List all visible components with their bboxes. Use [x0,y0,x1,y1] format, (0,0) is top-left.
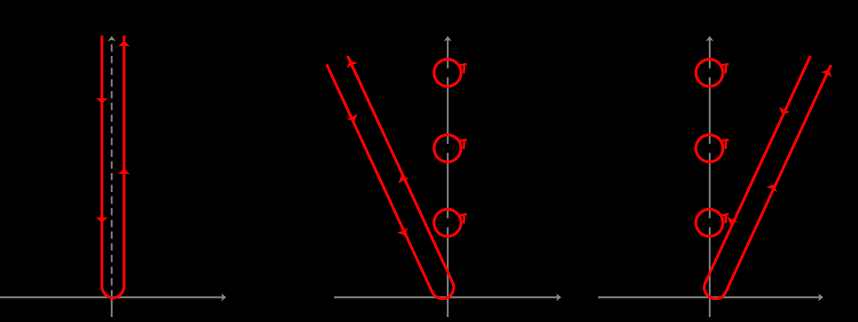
circulation arrow on circle 3 panel 3 [721,214,729,223]
x-axis panel 3 [598,296,820,298]
pole circle 3 panel 3 [696,209,723,236]
arrow down on left branch (lower) [96,217,108,223]
arrow up at outer branch top end panel 3 [821,69,832,77]
contour C3 hairpin [704,56,831,299]
pole circle 2 panel 3 [696,135,723,162]
arrow down on outer branch (upper) panel 2 [347,114,358,122]
y-axis dashed panel 1 [111,38,113,297]
pole circle 1 panel 2 [434,59,461,86]
pole circle 3 panel 2 [434,209,461,236]
circulation arrow on circle 1 panel 3 [721,64,729,73]
arrow down on outer branch (lower) panel 2 [397,228,408,236]
arrow up on inner branch panel 2 [398,176,409,184]
circulation arrow on circle 2 panel 3 [721,140,729,149]
arrow down on left branch (upper) [96,98,108,104]
circulation arrow on circle 2 panel 2 [459,140,467,149]
y-axis solid below origin panel 1 [111,297,113,317]
y-axis panel 3 (segments with gaps at poles) [709,227,711,317]
circulation arrow on circle 1 panel 2 [459,64,467,73]
y-axis arrowhead panel 2 [444,36,452,41]
arrow down on inner branch (lower, near pole) panel 3 [727,217,738,225]
arrow up on outer branch panel 3 [766,184,777,192]
arrow up on right branch (mid) [118,168,130,174]
arrow up at inner branch top end panel 2 [347,60,358,68]
x-axis panel 1 [0,296,223,298]
pole circle 2 panel 2 [434,135,461,162]
arrow down on inner branch (upper) panel 3 [779,107,790,115]
y-axis panel 2 (segments with gaps at poles) [447,227,449,317]
y-axis arrowhead panel 3 [706,36,714,41]
y-axis arrowhead panel 1 [108,36,116,41]
contour C1 hairpin [102,36,124,299]
contour C2 hairpin [327,56,454,299]
circulation arrow on circle 3 panel 2 [459,214,467,223]
arrow up on right branch (top end) [118,41,130,47]
pole circle 1 panel 3 [696,59,723,86]
x-axis panel 2 [334,296,558,298]
